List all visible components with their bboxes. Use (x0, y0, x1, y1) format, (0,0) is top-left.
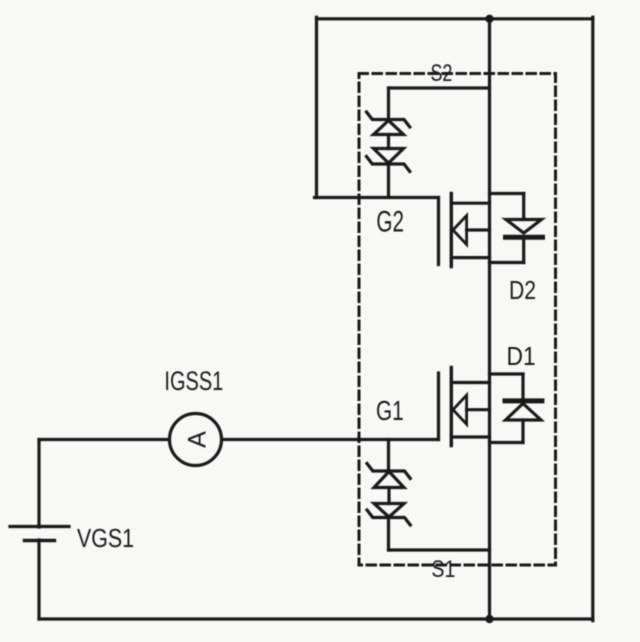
transistor Q1 gate bar (437, 373, 440, 440)
diode D1 bottom lead (521, 420, 524, 443)
zener pair upper bar top (367, 112, 410, 127)
ammeter IGSS1 circle (170, 414, 222, 466)
battery VGS1 short plate (25, 539, 55, 542)
zener pair lower bar top (367, 464, 410, 479)
wire battery bottom lead (37, 540, 40, 619)
wire top bus (317, 17, 593, 20)
wire S1 (389, 548, 490, 551)
transistor Q1 body arrow (453, 395, 467, 424)
battery VGS1 long plate (10, 525, 69, 528)
diode D1 cathode bar (505, 398, 542, 403)
wire G1 gate left segment (39, 438, 168, 441)
svg-text:G2: G2 (376, 206, 404, 239)
svg-text:IGSS1: IGSS1 (164, 366, 223, 397)
zener pair lower triangle bottom (374, 504, 404, 518)
zener pair upper bar bottom (367, 157, 410, 172)
zener pair lower bar bottom (367, 510, 410, 525)
svg-text:A: A (184, 431, 212, 448)
svg-text:S2: S2 (431, 59, 453, 86)
zener pair lower middle lead (387, 488, 390, 504)
transistor Q2 drain tap (451, 202, 489, 205)
diode D2 cathode bar (506, 235, 543, 240)
wire TVS lower top lead (387, 440, 390, 472)
diode D1 bottom wire (490, 441, 524, 444)
DUT dashed outline (359, 74, 556, 566)
svg-text:G1: G1 (376, 396, 404, 427)
zener pair upper triangle bottom (374, 149, 404, 164)
transistor Q1 source tap (451, 435, 489, 438)
wire battery top lead (37, 440, 40, 528)
transistor Q1 drain tap (451, 381, 489, 384)
diode D1 top wire (490, 372, 524, 375)
transistor Q2 channel bar (450, 194, 453, 267)
wire G1 gate right segment (223, 438, 439, 441)
diode D2 triangle (506, 220, 542, 234)
svg-text:D2: D2 (509, 276, 536, 304)
svg-text:VGS1: VGS1 (77, 525, 134, 553)
zener pair lower triangle top (374, 472, 404, 488)
transistor Q2 gate bar (437, 198, 440, 265)
diode D1 top lead (521, 374, 524, 399)
wire bottom bus (39, 617, 593, 620)
wire TVS lower bottom lead (387, 518, 390, 551)
node top junction dot (485, 15, 493, 23)
wire TVS upper bottom lead (387, 164, 390, 198)
zener pair upper triangle top (374, 121, 404, 135)
transistor Q2 body arrow (453, 216, 467, 245)
transistor Q1 body tap (467, 408, 490, 411)
wire main vertical (S-D shorted bus) (488, 19, 491, 619)
wire right bus (591, 17, 594, 620)
transistor Q2 source tap (451, 256, 489, 259)
svg-text:D1: D1 (507, 343, 536, 372)
wire S2 (389, 86, 490, 89)
diode D2 top lead (522, 194, 525, 220)
wire G2 gate (315, 196, 439, 199)
transistor Q1 channel bar (450, 368, 453, 446)
diode D2 bottom wire (490, 261, 524, 264)
zener pair upper middle lead (387, 135, 390, 149)
diode D2 bottom lead (522, 240, 525, 263)
wire TVS upper top lead (387, 88, 390, 120)
svg-text:S1: S1 (431, 555, 455, 583)
diode D2 top wire (490, 192, 524, 195)
node bottom junction dot (485, 615, 493, 623)
diode D1 triangle (506, 404, 542, 421)
wire left loop vertical (315, 17, 318, 197)
transistor Q2 body tap (467, 228, 490, 231)
